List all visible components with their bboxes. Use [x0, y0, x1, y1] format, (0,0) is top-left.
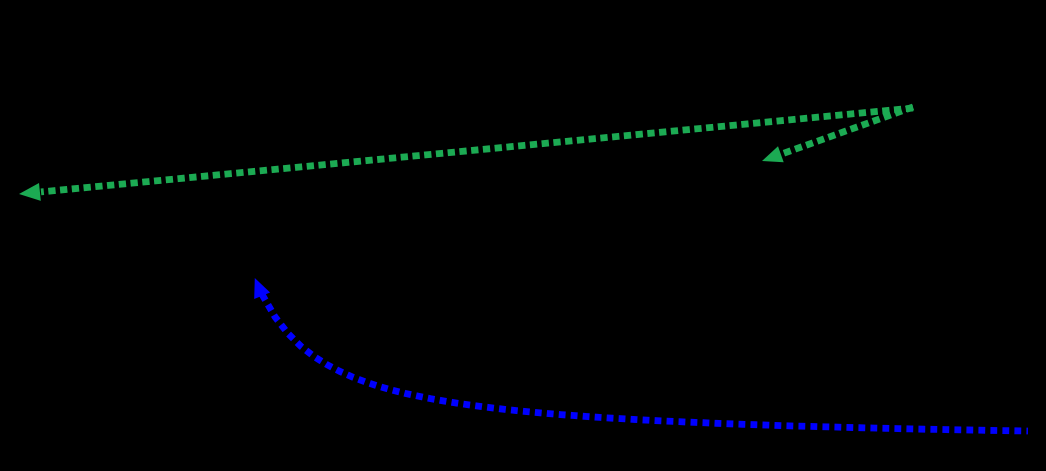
node B: short green arrowhead at (762,161) [762, 146, 784, 162]
wire: short green dashed arrow line from (913,107) to mid arrowhead [780, 107, 913, 155]
wire: long green dashed arrow line from (913,108) to left arrowhead [41, 108, 913, 192]
node A: left green arrowhead at (19,194) [19, 183, 41, 201]
wire: blue dashed hyperbolic curve [262, 294, 1028, 431]
node C: blue arrowhead at (254.8,278) [254, 278, 270, 299]
